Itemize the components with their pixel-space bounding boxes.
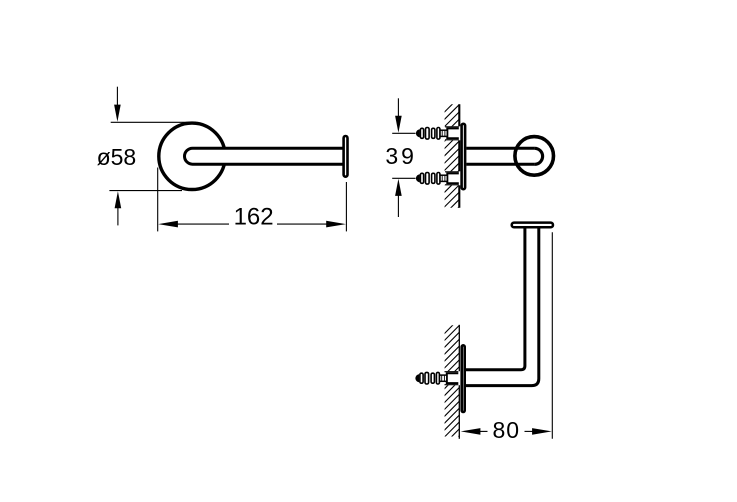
svg-text:162: 162 xyxy=(234,204,274,231)
dim 80 extension line xyxy=(551,232,553,438)
svg-text:ø58: ø58 xyxy=(97,144,137,170)
dim 80 right arrow xyxy=(525,430,533,432)
dim 80 left arrow xyxy=(461,428,481,435)
bar tube (front) xyxy=(185,148,343,164)
wall face line (middle) xyxy=(458,104,460,207)
dim 39 top extension line xyxy=(392,132,415,134)
dim 162 left extension line xyxy=(157,168,159,232)
end cap (edge-on) xyxy=(344,136,348,177)
L-tube outer line xyxy=(466,228,539,385)
dim 39 top arrow xyxy=(397,98,399,118)
dim 39 bottom arrow xyxy=(395,179,402,196)
dim o58 bottom extension line xyxy=(109,190,182,192)
wall face line (right) xyxy=(458,325,460,439)
dim o58 top extension line xyxy=(111,121,196,123)
wall plate (edge-on, right) xyxy=(462,345,465,412)
svg-text:39: 39 xyxy=(385,143,417,169)
L-tube inner line xyxy=(466,228,525,370)
top disc (edge-on) xyxy=(512,223,553,228)
dim o58 top arrow xyxy=(116,87,118,107)
wall hatching xyxy=(444,97,460,230)
tube rounded end (side) xyxy=(535,148,543,164)
dim 39 bottom extension line xyxy=(392,177,415,179)
screw S2 xyxy=(416,171,461,185)
dim 162 line left segment xyxy=(158,221,178,228)
end cap disc (face-on) xyxy=(515,137,554,176)
dim o58 bottom arrow xyxy=(115,191,122,208)
bar tube (side) xyxy=(466,148,534,164)
wall plate (edge-on, middle) xyxy=(462,124,466,189)
screw S3 xyxy=(415,371,460,385)
svg-text:80: 80 xyxy=(493,417,521,443)
wall hatching (right view) xyxy=(444,319,460,452)
rosette circle (front) xyxy=(159,123,225,189)
dim 162 line right segment xyxy=(277,223,327,225)
screw S1 xyxy=(416,126,461,140)
dim 162 right extension line xyxy=(345,182,347,231)
